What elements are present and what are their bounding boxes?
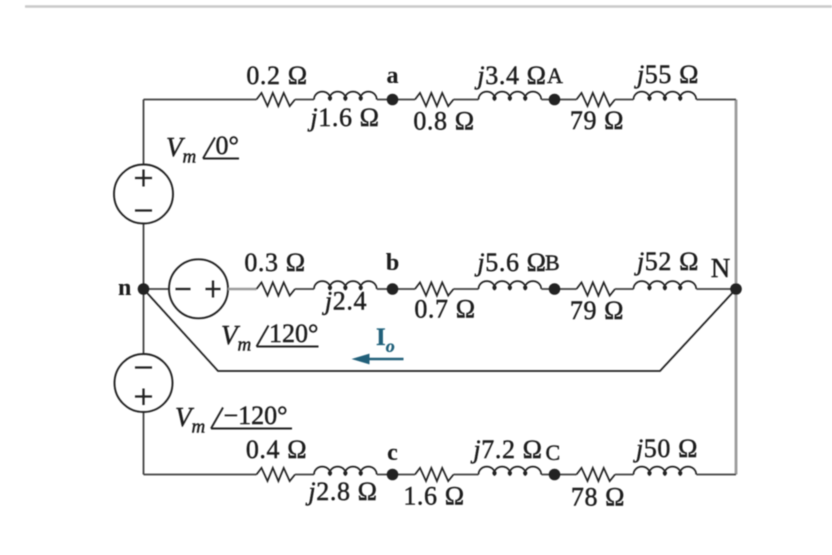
wire xyxy=(295,99,314,101)
wire xyxy=(144,474,257,476)
resistor 1.6 &#937; (line c) xyxy=(415,468,454,481)
label Vm&#8736;120&#176; xyxy=(221,319,319,356)
svg-text:N: N xyxy=(711,253,731,283)
node C xyxy=(549,469,561,481)
node a xyxy=(387,94,399,106)
svg-text:0.7 Ω: 0.7 Ω xyxy=(414,295,475,324)
wire xyxy=(541,288,576,290)
resistor 79 &#937; (load B) xyxy=(577,282,616,295)
resistor 0.2 &#937; (line a) xyxy=(257,93,296,106)
wire xyxy=(696,99,736,101)
inductor j50 &#937; (load C) xyxy=(634,467,697,475)
wire xyxy=(377,99,415,101)
wire xyxy=(541,99,576,101)
wire xyxy=(615,288,634,290)
node A xyxy=(549,94,561,106)
wire xyxy=(377,474,415,476)
svg-text:79 Ω: 79 Ω xyxy=(570,296,624,325)
svg-text:j5.6 Ω: j5.6 Ω xyxy=(474,248,546,277)
resistor 0.4 &#937; (line c) xyxy=(257,468,296,481)
inductor j2.4 (line b) xyxy=(314,281,377,289)
wire xyxy=(696,474,736,476)
resistor 0.8 &#937; (line a) xyxy=(415,93,454,106)
current Io arrow xyxy=(352,354,404,365)
node b xyxy=(387,283,399,295)
svg-text:79 Ω: 79 Ω xyxy=(570,106,624,135)
svg-text:0.2 Ω: 0.2 Ω xyxy=(246,61,307,90)
label Vm&#8736;&#8722;120&#176; xyxy=(175,401,292,438)
resistor 0.3 &#937; (line b) xyxy=(257,282,296,295)
node c xyxy=(387,469,399,481)
wire load B to N xyxy=(696,288,736,290)
svg-text:120°: 120° xyxy=(269,319,318,348)
resistor 0.7 &#937; (line b) xyxy=(415,282,454,295)
svg-text:c: c xyxy=(387,440,398,466)
svg-text:0.4 Ω: 0.4 Ω xyxy=(246,435,307,464)
wire xyxy=(541,474,576,476)
wire right vertical xyxy=(735,100,738,475)
svg-text:0.3 Ω: 0.3 Ω xyxy=(244,248,305,277)
svg-text:j2.8 Ω: j2.8 Ω xyxy=(305,477,377,506)
inductor j55 &#937; (load A) xyxy=(634,92,697,100)
wire xyxy=(454,288,479,290)
svg-text:b: b xyxy=(386,250,399,276)
wire n to source Vb xyxy=(144,288,171,290)
wire xyxy=(295,474,314,476)
wire n to source Vc xyxy=(143,289,145,355)
wire neutral n to N xyxy=(144,289,737,371)
node N xyxy=(730,283,742,295)
voltage source Vm&#8736;120&#176; (phase b) xyxy=(169,259,228,318)
node n xyxy=(138,283,150,295)
svg-text:a: a xyxy=(387,63,399,89)
svg-text:A: A xyxy=(547,63,563,88)
wire xyxy=(615,474,634,476)
wire left source Va to n xyxy=(143,224,145,290)
svg-text:0°: 0° xyxy=(216,131,239,160)
wire xyxy=(454,99,479,101)
svg-text:j52 Ω: j52 Ω xyxy=(634,247,699,276)
label Vm&#8736;0&#176; xyxy=(166,131,239,168)
wire xyxy=(615,99,634,101)
svg-text:j55 Ω: j55 Ω xyxy=(634,60,699,89)
wire xyxy=(454,474,479,476)
wire xyxy=(295,288,314,290)
inductor j3.4 &#937; (line a) xyxy=(479,92,542,100)
inductor j52 &#937; (load B) xyxy=(634,281,697,289)
node B xyxy=(549,283,561,295)
svg-text:j2.4: j2.4 xyxy=(322,287,367,316)
svg-text:j50 Ω: j50 Ω xyxy=(633,434,698,463)
svg-text:j1.6 Ω: j1.6 Ω xyxy=(307,103,379,132)
resistor 79 &#937; (load A) xyxy=(577,93,616,106)
svg-text:C: C xyxy=(546,440,561,465)
wire source Vb to resistor xyxy=(228,288,257,290)
wire xyxy=(377,288,415,290)
inductor j5.6 &#937; (line b) xyxy=(479,281,542,289)
inductor j2.8 &#937; (line c) xyxy=(314,467,377,475)
svg-text:B: B xyxy=(545,250,560,275)
inductor j7.2 &#937; (line c) xyxy=(479,467,542,475)
resistor 78 &#937; (load C) xyxy=(577,468,616,481)
svg-text:0.8 Ω: 0.8 Ω xyxy=(413,107,474,136)
svg-text:−120°: −120° xyxy=(224,401,288,430)
svg-text:1.6 Ω: 1.6 Ω xyxy=(403,482,464,511)
inductor j1.6 &#937; (line a) xyxy=(314,92,377,100)
svg-text:j3.4 Ω: j3.4 Ω xyxy=(474,61,546,90)
voltage source Vm&#8736;&#8722;120&#176; (phase c) xyxy=(115,354,173,412)
wire xyxy=(144,99,257,101)
top grey rule xyxy=(25,5,832,8)
svg-text:n: n xyxy=(118,275,131,301)
wire source Vc to bottom xyxy=(143,412,145,475)
svg-text:j7.2 Ω: j7.2 Ω xyxy=(470,435,542,464)
svg-text:78 Ω: 78 Ω xyxy=(571,483,625,512)
wire left above source Va xyxy=(143,100,145,165)
voltage source Vm&#8736;0&#176; (phase a) xyxy=(114,165,173,224)
